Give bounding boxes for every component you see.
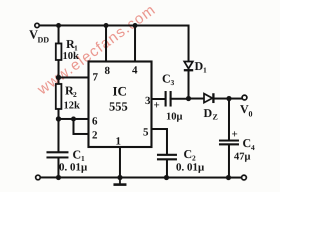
wire pin5 to C2 <box>151 129 167 155</box>
terminal bottom-left <box>36 175 41 180</box>
wire C4 bottom to ground rail <box>228 145 230 177</box>
label C4 <box>242 136 255 152</box>
wire R1 top drop <box>58 25 60 43</box>
svg-text:D: D <box>203 106 212 120</box>
capacitor C2 plates <box>157 155 177 160</box>
svg-text:+: + <box>153 100 159 112</box>
wire pin1 to ground rail <box>119 147 121 177</box>
wire pin7 from R1-R2 node <box>59 76 89 78</box>
wire D1 branch vertical from top rail <box>188 26 190 62</box>
svg-text:Z: Z <box>212 113 217 122</box>
wire node down to C1 <box>57 119 59 152</box>
wire R1 bottom to node <box>58 60 60 77</box>
svg-text:3: 3 <box>145 95 151 107</box>
label C3 <box>162 72 175 88</box>
svg-text:0. 01μ: 0. 01μ <box>176 162 205 174</box>
diode D1 <box>184 62 193 71</box>
node top rail R1 <box>56 23 61 28</box>
svg-text:47μ: 47μ <box>234 152 251 163</box>
node ground rail pin1 <box>117 175 122 180</box>
svg-text:1: 1 <box>203 66 207 75</box>
wire C3 to node A <box>170 98 188 100</box>
svg-text:DD: DD <box>38 35 50 44</box>
node B Dz-Vo-C4 <box>226 96 231 101</box>
node ground rail C4 <box>226 175 231 180</box>
label R1 <box>66 37 78 53</box>
capacitor C4 plates <box>219 141 239 145</box>
wire pin8 to top rail <box>105 25 107 61</box>
node R2-C1 junction <box>56 116 61 121</box>
svg-text:3: 3 <box>171 78 175 87</box>
node top rail pin4 <box>133 23 138 28</box>
diode Dz zener <box>204 93 213 103</box>
wire R2 bottom to node <box>57 109 59 119</box>
svg-text:6: 6 <box>92 115 98 127</box>
node A D1-C3-Dz <box>186 96 191 101</box>
label C2 <box>183 147 196 163</box>
svg-text:C: C <box>183 147 192 161</box>
terminal Vo <box>242 95 247 100</box>
svg-text:4: 4 <box>132 64 138 76</box>
svg-text:2: 2 <box>92 129 98 141</box>
terminal VDD <box>35 23 39 27</box>
svg-text:555: 555 <box>109 99 128 113</box>
svg-text:2: 2 <box>73 90 77 99</box>
capacitor C3 plates <box>166 91 171 107</box>
wire node to R2 top <box>58 77 60 84</box>
wire pin3 to C3 <box>151 98 165 100</box>
node ground rail C1 <box>56 175 61 180</box>
node pin2 branch <box>71 116 76 121</box>
svg-text:C: C <box>242 136 251 150</box>
ground symbol at pin1 <box>113 177 126 184</box>
label D1 <box>195 59 208 75</box>
svg-text:7: 7 <box>93 71 99 83</box>
wire node A to Dz anode <box>188 98 204 100</box>
wire Dz cathode to node B <box>214 98 242 100</box>
svg-text:+: + <box>231 129 237 141</box>
wire pin2 step <box>73 119 88 134</box>
resistor R2 body <box>56 84 62 109</box>
terminal bottom-right <box>242 175 247 180</box>
label C1 <box>72 147 85 163</box>
svg-text:10k: 10k <box>63 51 80 62</box>
svg-text:0. 01μ: 0. 01μ <box>59 161 88 173</box>
svg-text:12k: 12k <box>63 100 80 111</box>
svg-text:10μ: 10μ <box>166 112 183 123</box>
wire bottom ground rail <box>40 176 241 178</box>
svg-text:5: 5 <box>143 127 149 139</box>
svg-text:4: 4 <box>251 143 255 152</box>
op IC U1 555 box <box>88 61 151 147</box>
label Vo <box>240 102 253 119</box>
svg-text:C: C <box>162 72 171 86</box>
svg-text:8: 8 <box>105 65 111 77</box>
svg-text:1: 1 <box>115 135 121 147</box>
wire node B down to C4 <box>228 99 230 141</box>
node top rail pin8 <box>104 23 109 28</box>
resistor R1 body <box>56 43 62 60</box>
node ground rail C2 <box>164 175 169 180</box>
wire pin4 to top rail <box>134 25 136 61</box>
node R1-R2 junction <box>56 75 61 80</box>
wire top supply rail <box>40 24 189 26</box>
label R2 <box>65 83 77 99</box>
svg-text:IC: IC <box>112 83 126 98</box>
label Dz <box>203 106 217 122</box>
wire pin6 from node <box>58 118 88 120</box>
svg-text:C: C <box>72 147 81 161</box>
wire C2 bottom to ground rail <box>166 160 168 178</box>
svg-text:0: 0 <box>248 110 252 119</box>
wire C1 bottom to ground rail <box>57 157 59 177</box>
label VDD <box>29 27 49 44</box>
capacitor C1 plates <box>46 152 68 157</box>
wire D1 cathode to node A <box>187 71 189 98</box>
